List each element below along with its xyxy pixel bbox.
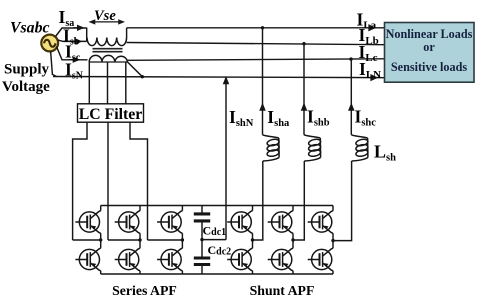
- inductor Lsh: [351, 135, 368, 161]
- arrow Ishb up: [302, 105, 306, 111]
- arrow ILa: [369, 25, 374, 30]
- capacitor Cdc1: [201, 206, 203, 257]
- series leg3 wire: [181, 206, 183, 275]
- arrow Isc: [70, 58, 79, 62]
- shunt leg2 wire: [292, 206, 294, 275]
- svg-text:Nonlinear Loads: Nonlinear Loads: [386, 27, 473, 41]
- svg-text:or: or: [423, 40, 435, 54]
- arrow ILN: [371, 75, 376, 80]
- wire source to line a: [56, 28, 87, 37]
- Vse arrow: [90, 20, 124, 24]
- arrow IshN up: [224, 78, 228, 84]
- svg-text:Series APF: Series APF: [112, 283, 177, 298]
- svg-text:LC Filter: LC Filter: [79, 106, 143, 123]
- wire line a right: [127, 27, 385, 29]
- wire Ishc: [333, 59, 352, 241]
- svg-text:Supply: Supply: [4, 62, 50, 78]
- wire Ishb: [293, 44, 304, 240]
- transformer primary right stub: [126, 28, 128, 38]
- wire source to line c: [57, 47, 88, 60]
- shunt leg3 wire: [332, 206, 334, 275]
- transistor Q8: [227, 248, 252, 271]
- svg-text:Cdc1: Cdc1: [203, 224, 227, 239]
- wire source to line N: [51, 51, 57, 76]
- arrow Isha up: [260, 105, 264, 111]
- series leg1 wire: [100, 206, 102, 275]
- wire jumper to series leg2: [108, 239, 140, 241]
- dc bottom rail: [101, 273, 333, 275]
- wire W2 tap 1 to LC: [88, 62, 90, 104]
- inductor La: [263, 135, 280, 161]
- wire W2 to N diagonal: [128, 62, 143, 77]
- arrow Ishc up: [349, 105, 353, 111]
- svg-text:Isha: Isha: [267, 107, 290, 129]
- transistor Q4: [115, 248, 140, 271]
- node line c to Ishc: [349, 57, 352, 60]
- wire W2 tap 3 to LC: [125, 62, 127, 104]
- transistor Q11: [308, 211, 333, 234]
- wire LC out 3: [130, 122, 148, 240]
- svg-text:Ishb: Ishb: [307, 107, 330, 129]
- transformer secondary winding W2: [89, 55, 127, 62]
- wire line c right: [128, 59, 385, 61]
- wire jumper to series leg1: [73, 239, 101, 241]
- svg-text:Shunt APF: Shunt APF: [250, 283, 315, 298]
- wire W2 tap 2 to LC: [107, 62, 109, 104]
- capacitor Cdc2: [201, 266, 203, 274]
- transformer primary winding W1: [87, 38, 127, 46]
- wire line b right: [127, 43, 385, 45]
- svg-text:Lsh: Lsh: [374, 142, 396, 164]
- series leg2 wire: [139, 206, 141, 275]
- transistor Q10: [268, 248, 293, 271]
- wire LC out 2: [107, 122, 109, 240]
- transistor Q5: [157, 211, 182, 234]
- svg-text:Vsabc: Vsabc: [10, 19, 50, 36]
- node cap midpoint: [200, 238, 203, 241]
- transformer core: [93, 49, 123, 52]
- svg-text:Voltage: Voltage: [2, 79, 50, 95]
- dc top rail: [101, 205, 333, 207]
- shunt leg1 wire: [252, 206, 254, 275]
- wire cap midpoint to IshN: [202, 239, 226, 241]
- wire IshN: [225, 78, 227, 240]
- LC filter box: [78, 104, 144, 122]
- transistor Q1: [75, 211, 100, 234]
- arrow Isb: [72, 39, 81, 43]
- transistor Q7: [227, 211, 252, 234]
- svg-text:IshN: IshN: [229, 107, 254, 129]
- transistor Q3: [115, 211, 140, 234]
- svg-text:Ishc: Ishc: [355, 107, 377, 129]
- source Vs AC symbol: [41, 35, 58, 52]
- svg-text:Sensitive loads: Sensitive loads: [391, 60, 467, 74]
- wire LC out 1: [73, 122, 87, 240]
- inductor Lb: [304, 135, 321, 161]
- wire source to line b: [58, 40, 87, 41]
- transistor Q12: [308, 248, 333, 271]
- node line b to Ishb: [302, 42, 305, 45]
- wire jumper to series leg3: [148, 239, 183, 241]
- arrow Isa: [73, 26, 83, 30]
- wire line N: [53, 77, 385, 78]
- svg-text:Cdc2: Cdc2: [208, 243, 232, 258]
- transistor Q6: [157, 248, 182, 271]
- node line a to Isha: [261, 26, 264, 29]
- load box: [385, 23, 475, 83]
- transistor Q9: [268, 211, 293, 234]
- wire Isha: [253, 28, 263, 240]
- transistor Q2: [75, 248, 100, 271]
- transformer primary left stub: [86, 28, 88, 42]
- node diagonal on N: [141, 75, 144, 78]
- svg-text:Vse: Vse: [94, 8, 116, 24]
